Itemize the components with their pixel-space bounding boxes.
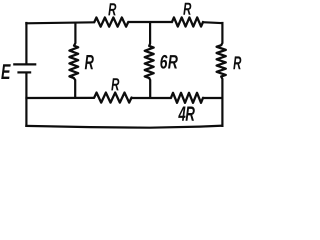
wire top rail: R1 to R2 — [128, 21, 173, 23]
battery negative lead down the left edge — [25, 74, 27, 128]
label R of resistor R1 — [108, 3, 116, 15]
wire: top-right corner down to resistor RR — [221, 22, 222, 45]
label 6R of resistor RM — [160, 55, 167, 69]
battery long plate (+) — [13, 63, 36, 65]
wire middle rail: R4 to right edge — [203, 97, 224, 99]
label 4R of resistor R4 — [178, 106, 185, 120]
resistor R2 (top right, horizontal), value R — [172, 17, 203, 26]
wire top rail: battery positive to resistor R1 — [25, 22, 95, 23]
resistor RM (middle vertical), value 6R — [145, 46, 154, 78]
resistor RR (right vertical), value R — [217, 45, 226, 76]
battery E positive lead (top) — [25, 22, 27, 64]
label E of battery — [1, 64, 11, 79]
wire: RM bottom to middle rail — [149, 78, 150, 99]
wire: top rail down to resistor RL — [74, 22, 75, 46]
wire bottom rail (return wire) — [25, 126, 223, 128]
wire top rail: R2 to top-right corner — [203, 22, 224, 23]
resistor R3 (middle rail left, horizontal), value R — [94, 93, 131, 103]
resistor RL (left vertical), value R — [69, 46, 78, 78]
label R of resistor RL — [85, 55, 94, 69]
resistor R1 (top left, horizontal), value R — [94, 18, 128, 27]
wire: top rail down to resistor RM — [148, 22, 151, 46]
wire middle rail: R3 to R4 — [131, 97, 172, 99]
wire: RR bottom down right edge to bottom rail — [221, 77, 222, 128]
battery short plate (-) — [17, 71, 31, 73]
label R of resistor R3 — [111, 78, 119, 90]
label R of resistor RR — [233, 56, 241, 69]
resistor R4 (middle rail right, horizontal), value 4R — [171, 93, 203, 103]
wire middle rail: battery lead to resistor R3 — [25, 97, 94, 99]
wire: RL bottom to middle rail — [74, 78, 75, 99]
label R of resistor R2 — [183, 3, 191, 15]
